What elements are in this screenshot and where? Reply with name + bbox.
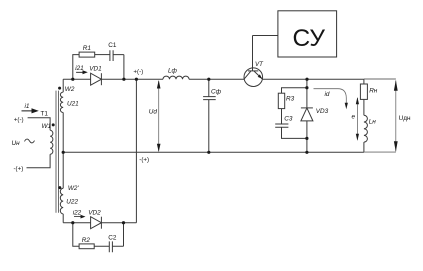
svg-text:-(+): -(+) (14, 166, 24, 173)
svg-text:i22: i22 (73, 209, 82, 216)
svg-text:Lн: Lн (369, 119, 377, 126)
svg-text:Cф: Cф (211, 89, 222, 96)
svg-text:T1: T1 (41, 110, 49, 117)
svg-text:СУ: СУ (293, 25, 326, 52)
svg-text:W2': W2' (68, 185, 80, 192)
svg-text:Ud: Ud (149, 109, 158, 116)
svg-text:+(-): +(-) (133, 68, 143, 75)
svg-text:R3: R3 (286, 96, 295, 103)
svg-text:VD2: VD2 (88, 209, 101, 216)
svg-text:VD1: VD1 (89, 66, 102, 73)
svg-text:Uн: Uн (12, 140, 21, 147)
svg-text:U22: U22 (66, 198, 78, 205)
svg-text:e: e (352, 113, 356, 120)
svg-text:-(+): -(+) (139, 157, 149, 164)
svg-text:i21: i21 (75, 65, 84, 72)
svg-text:+(-): +(-) (14, 116, 24, 123)
svg-text:Rн: Rн (369, 87, 378, 94)
svg-text:R2: R2 (82, 237, 91, 244)
svg-text:R1: R1 (83, 45, 92, 52)
svg-text:i1: i1 (25, 103, 30, 110)
svg-text:U21: U21 (67, 100, 79, 107)
svg-text:Lф: Lф (168, 67, 178, 74)
svg-text:C2: C2 (108, 234, 117, 241)
svg-text:VD3: VD3 (316, 108, 329, 115)
svg-text:VT: VT (255, 61, 264, 68)
svg-text:C1: C1 (108, 42, 117, 49)
svg-text:W2: W2 (65, 86, 75, 93)
svg-text:W1: W1 (42, 123, 52, 130)
svg-text:C3: C3 (284, 116, 293, 123)
svg-text:id: id (325, 91, 330, 98)
svg-text:Uдн: Uдн (399, 115, 411, 122)
